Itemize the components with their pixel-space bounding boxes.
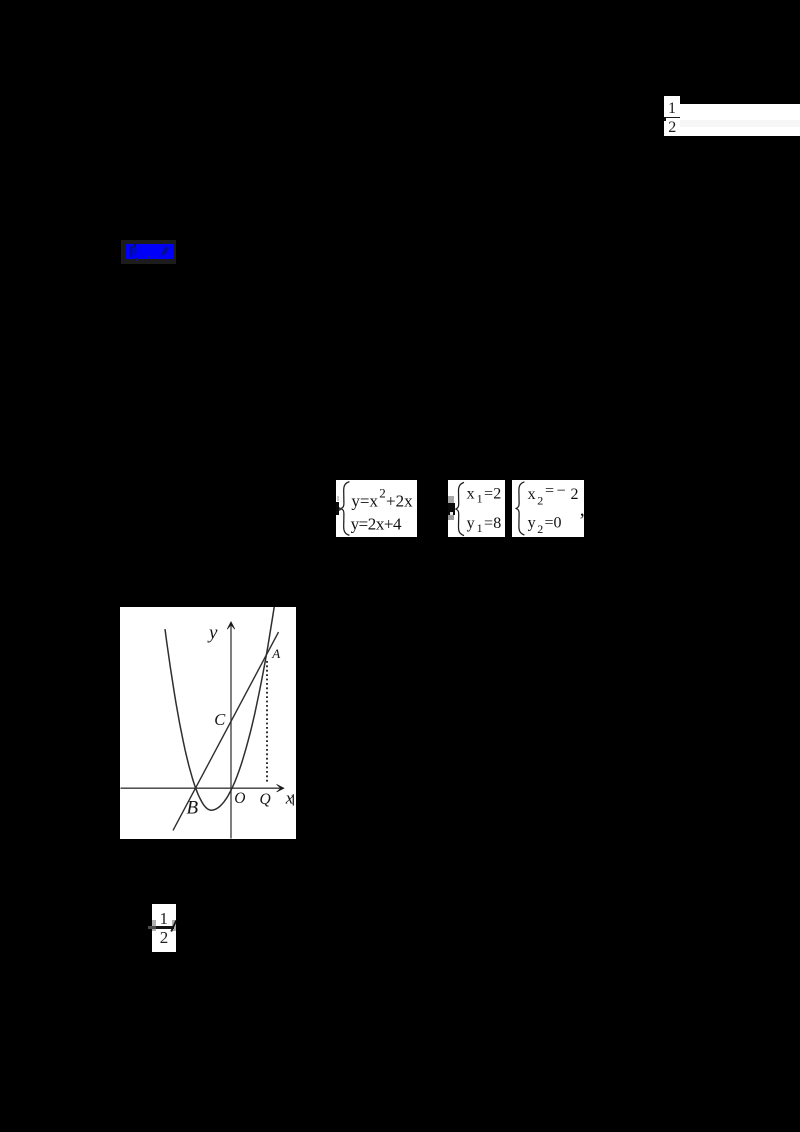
svg-text:x: x	[285, 789, 294, 808]
top-right fraction image: white box with 1/2	[664, 96, 680, 136]
top-right white strip to page edge	[680, 104, 800, 137]
svg-text:2: 2	[571, 485, 579, 502]
svg-text:=: =	[484, 485, 493, 502]
slash at right of bar	[168, 918, 178, 934]
svg-text:x: x	[528, 485, 536, 502]
svg-text:B: B	[187, 797, 199, 818]
svg-text:y: y	[466, 515, 474, 532]
svg-text:2: 2	[537, 522, 543, 536]
bottom fraction image: 1/2	[152, 904, 176, 952]
clipped glyph between box1 and box2	[448, 496, 454, 503]
fraction text 1 over 2	[664, 96, 680, 136]
svg-text:y=x: y=x	[351, 491, 378, 510]
svg-text:8: 8	[493, 515, 501, 532]
dark glyph marks on blue highlight	[130, 246, 132, 257]
svg-text:x: x	[466, 485, 474, 502]
graph figure	[120, 607, 296, 839]
text cursor bar after x label	[292, 794, 294, 805]
svg-text:1: 1	[476, 521, 482, 535]
clipped glyph at left edge of box 1	[337, 496, 339, 502]
svg-text:2: 2	[379, 485, 386, 500]
svg-text:y=2x+4: y=2x+4	[350, 514, 401, 533]
svg-text:=0: =0	[545, 514, 562, 531]
svg-text:Q: Q	[260, 791, 271, 808]
svg-text:=: =	[545, 482, 554, 499]
blue highlight block	[121, 240, 177, 265]
svg-text:2: 2	[493, 485, 501, 502]
svg-text:A: A	[271, 646, 280, 661]
svg-text:O: O	[234, 790, 245, 807]
tick of clipped = sign	[664, 117, 666, 121]
svg-text:+2x: +2x	[386, 491, 413, 510]
svg-text:−: −	[557, 482, 566, 499]
labels	[187, 623, 294, 819]
svg-text:2: 2	[537, 493, 543, 507]
x axis arrowhead	[277, 784, 284, 792]
straight line y=2x+4	[173, 632, 279, 830]
svg-text:C: C	[214, 710, 226, 729]
svg-text:,: ,	[580, 498, 584, 520]
dotted vertical A-Q	[266, 661, 268, 784]
y axis arrowhead	[227, 622, 235, 629]
parabola	[165, 606, 274, 810]
x axis	[121, 787, 282, 789]
equation system box 3: x2=-2 ; y2=0	[512, 480, 584, 537]
equation system box 2: x1=2 ; y1=8	[448, 480, 505, 537]
svg-text:y: y	[207, 623, 218, 644]
svg-text:y: y	[528, 514, 536, 531]
svg-text:1: 1	[476, 491, 482, 505]
svg-text:=: =	[484, 515, 493, 532]
equation system box 1: y=x^2+2x ; y=2x+4	[336, 480, 417, 537]
y axis	[230, 624, 232, 839]
